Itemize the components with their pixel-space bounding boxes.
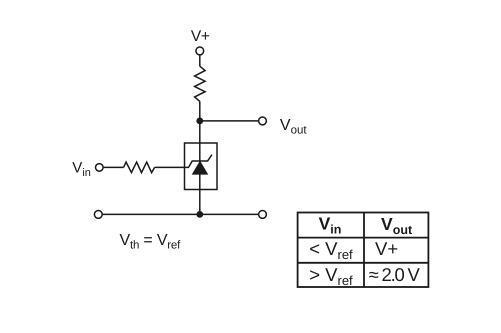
svg-text:Vout: Vout bbox=[381, 214, 413, 237]
truth table column divider bbox=[363, 213, 365, 288]
svg-text:< Vref: < Vref bbox=[309, 238, 353, 262]
wire Vin terminal to R2 bbox=[103, 166, 124, 168]
svg-text:V+: V+ bbox=[191, 28, 210, 45]
node: reference junction bbox=[196, 211, 203, 218]
TL431 U1 box bbox=[185, 143, 218, 190]
wire V+ to R1 bbox=[199, 55, 201, 67]
TL431 triangle (anode) bbox=[192, 161, 207, 174]
svg-text:Vin: Vin bbox=[319, 213, 342, 236]
svg-text:Vth = Vref: Vth = Vref bbox=[120, 232, 182, 251]
svg-text:> Vref: > Vref bbox=[309, 264, 353, 288]
node: output junction bbox=[196, 118, 203, 125]
wire R1 to bottom node (passes through U1) bbox=[199, 101, 201, 214]
terminal Vout bbox=[259, 117, 267, 125]
truth table header divider bbox=[298, 237, 429, 239]
resistor R1 bbox=[195, 66, 206, 101]
terminal Vin bbox=[96, 164, 104, 172]
wire R2 to U1 ref pin bbox=[155, 166, 190, 168]
truth table row divider bbox=[298, 262, 429, 264]
terminal V+ bbox=[196, 47, 204, 55]
svg-text:≈ 2.0 V: ≈ 2.0 V bbox=[369, 264, 421, 285]
wire junction to Vout terminal bbox=[200, 120, 259, 122]
svg-text:Vout: Vout bbox=[280, 117, 307, 136]
terminal bottom-right bbox=[259, 211, 267, 219]
TL431 cathode bar with bent ends bbox=[189, 155, 212, 167]
truth table frame bbox=[298, 213, 429, 288]
terminal bottom-left bbox=[94, 211, 102, 219]
wire bottom rail bbox=[102, 213, 259, 215]
svg-text:V+: V+ bbox=[375, 238, 398, 259]
svg-text:Vin: Vin bbox=[72, 160, 91, 179]
resistor R2 bbox=[124, 162, 155, 173]
